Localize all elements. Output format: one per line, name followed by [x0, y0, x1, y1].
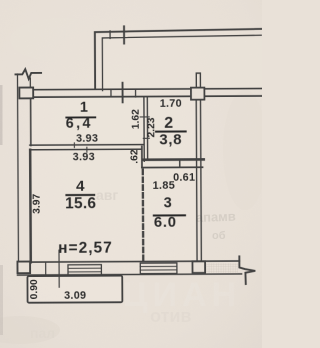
- pilaster top-left: [19, 88, 33, 99]
- margin blotches: [0, 316, 60, 344]
- balcony tick short: [109, 31, 111, 38]
- divider rooms 1/4 line 1: [30, 144, 144, 147]
- divider tick a: [73, 143, 75, 148]
- divider tick b: [86, 147, 88, 152]
- top wall tick b: [122, 83, 124, 103]
- balcony outer wall: [95, 29, 262, 89]
- wall tick 1.62/2.23: [140, 116, 149, 118]
- bottom wall bottom line: [18, 274, 242, 275]
- room 4 fraction bar: [65, 194, 95, 196]
- corner pilaster squares (drawn after walls to sit on top): [17, 87, 206, 274]
- dashed partition rooms 4/3: [142, 170, 145, 261]
- niche vertical 0.61: [179, 161, 181, 167]
- pilaster mid-top: [191, 88, 204, 100]
- room 3 fraction bar: [153, 214, 186, 216]
- hatched wall segment: [206, 263, 239, 274]
- interior lightening apartment: [32, 98, 197, 262]
- room 2/3 right wall line 1: [195, 100, 198, 261]
- jamb wall rooms 3/4 top: [141, 146, 143, 167]
- pilaster bottom-mid: [192, 261, 205, 272]
- top wall tick a: [110, 89, 112, 96]
- room 3 top wall line: [142, 166, 202, 168]
- scan edge smudge left: [0, 85, 3, 145]
- room 2/3 right wall line 2: [200, 100, 203, 261]
- room 4 left wall: [29, 150, 32, 262]
- room 1 fraction bar: [65, 116, 96, 118]
- divider rooms 1/4 line 2: [30, 148, 142, 151]
- room 2 fraction bar: [155, 130, 187, 132]
- balcony door line: [58, 250, 60, 287]
- left wall break symbol: [15, 69, 41, 79]
- wall tick 2.23 lower: [143, 137, 149, 139]
- watermark text row right: [196, 209, 236, 242]
- bottom wall tick: [45, 262, 47, 275]
- room 1 left wall: [30, 98, 32, 145]
- pilaster bottom-left: [17, 262, 30, 274]
- room 2 left wall line 2: [146, 97, 148, 159]
- bottom wall break symbol: [239, 256, 255, 284]
- left wall inner upper stub: [29, 78, 31, 87]
- interior lightening bottom balcony: [27, 276, 122, 302]
- balcony inner wall: [102, 35, 261, 90]
- window W1 mullions: [68, 268, 101, 272]
- top wall bottom line: [33, 96, 261, 97]
- top wall top line: [33, 89, 261, 90]
- window W2 frame: [140, 263, 177, 274]
- column stub above top wall: [196, 73, 200, 88]
- window W1 frame: [68, 265, 101, 276]
- balcony tick long: [123, 26, 125, 43]
- room 2 left wall line 1: [143, 97, 145, 161]
- bottom wall top line: [30, 261, 239, 262]
- window W2 mullions: [140, 266, 177, 270]
- lower balcony outline: [27, 276, 122, 303]
- top wall tick c: [135, 89, 137, 97]
- room 2 bottom wall: [143, 158, 203, 161]
- left wall outer line: [16, 74, 19, 262]
- interior lightening top balcony: [103, 38, 262, 90]
